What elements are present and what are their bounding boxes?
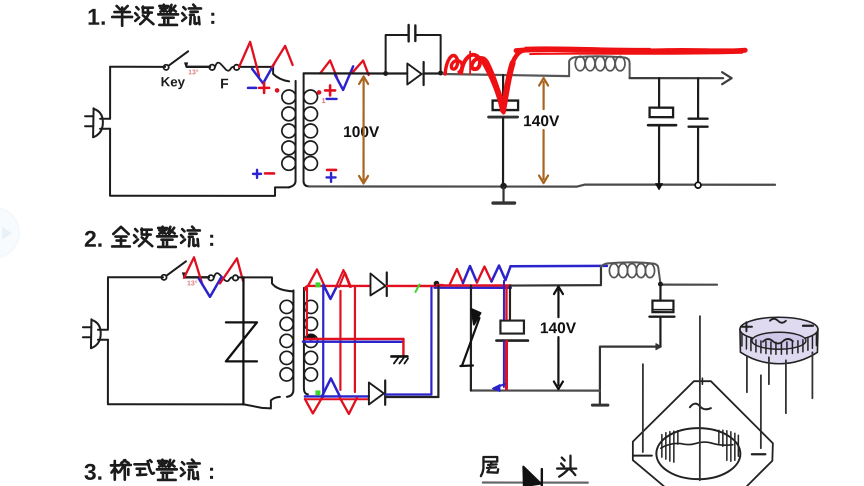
green slash mark xyxy=(415,284,419,292)
svg-text:3.: 3. xyxy=(84,459,103,485)
title 3: 3.bridge rectification xyxy=(84,459,215,485)
hole inner arc xyxy=(661,442,733,448)
junction dot at C1 ground xyxy=(500,183,507,190)
tail label (wei) xyxy=(481,457,498,476)
overlay red verticals xyxy=(306,288,308,339)
primary loop left vertical xyxy=(242,277,244,404)
hole hatches left xyxy=(662,431,678,463)
diode tail-head: baseline wire xyxy=(483,481,588,483)
bridge package diamond outline xyxy=(633,381,773,486)
junction dot C3 (open) xyxy=(695,182,701,188)
wire: D2 to node C (red) xyxy=(387,285,437,287)
red scribble: dip into capacitor xyxy=(483,60,513,111)
wire: c1 left loop with plug stubs xyxy=(110,67,289,196)
wire: diode to choke (gray) xyxy=(443,74,569,76)
green terminal dot top xyxy=(315,282,320,287)
wire: c2 left loop with plug stubs xyxy=(108,277,280,408)
black top wire to choke riser xyxy=(511,267,601,286)
overlay blue vertical (induced voltage) xyxy=(322,285,324,397)
disc leads xyxy=(746,356,748,392)
140V brown measuring arrow c1 xyxy=(542,82,544,109)
choke L2 loops xyxy=(601,263,608,266)
wire: D3 to risers (blue+black) xyxy=(386,393,431,395)
rectifier disc top face xyxy=(740,317,818,341)
transformer T1 primary winding xyxy=(289,81,296,188)
secondary polarity top: dot + - xyxy=(317,90,322,95)
capacitor C1 bypass branch wires xyxy=(386,35,441,74)
capacitor C1 plates xyxy=(407,25,409,41)
wire: switch to fuse xyxy=(187,66,210,68)
junction dot choke2 xyxy=(658,282,663,287)
svg-text::: : xyxy=(208,459,215,484)
red scribble: rectified humps xyxy=(445,56,462,75)
AC plug P2 xyxy=(91,319,101,348)
100V brown measuring arrow xyxy=(362,80,364,180)
blue arrow at bottom of pair xyxy=(494,384,505,388)
transformer T2 primary winding xyxy=(287,290,294,397)
head label (tou) xyxy=(557,456,576,477)
secondary top wire (red) to diode D2 xyxy=(305,286,370,290)
filter cap C4 (reservoir, electrolytic) xyxy=(502,75,504,100)
svg-text::: : xyxy=(209,4,216,29)
disc markings + ~ - xyxy=(741,326,752,328)
polarity marks primary top: - + dot xyxy=(248,87,256,90)
smoothed DC blue line xyxy=(510,265,607,268)
centre tap down lead red xyxy=(402,339,404,355)
secondary bottom wire blue/red to D3 xyxy=(305,395,369,397)
junction dot C2 xyxy=(656,184,663,190)
svg-text:Key: Key xyxy=(161,74,186,89)
title 2: 2.full-wave rectification xyxy=(84,226,215,252)
secondary polarity bottom: - + xyxy=(327,169,336,172)
capacitor C2 (electrolytic) lead xyxy=(658,78,660,107)
svg-text:100V: 100V xyxy=(343,124,380,141)
wire: choke to output arrow xyxy=(630,77,723,79)
fuse F2 xyxy=(208,275,213,280)
svg-text:2.: 2. xyxy=(84,226,103,252)
output arrowhead xyxy=(722,72,732,84)
wire: c2 top to switch xyxy=(108,276,163,278)
ground G2 xyxy=(592,404,608,407)
plus mark left xyxy=(633,455,652,457)
red top wire segment after node C xyxy=(437,284,511,287)
green terminal dot bottom xyxy=(315,390,320,395)
Z element on primary branch xyxy=(226,322,257,361)
player overlay button xyxy=(0,208,19,258)
centre lead wire xyxy=(699,316,701,480)
140V black measuring arrow c2 xyxy=(557,290,559,317)
wire: c1 top from plug to switch xyxy=(110,66,165,68)
riser pair up to node C xyxy=(430,287,432,394)
tilde on diamond xyxy=(690,404,711,410)
diode tail-head: filled triangle xyxy=(523,467,541,486)
centre tap wires red+blue xyxy=(305,338,403,340)
capacitor C2 body xyxy=(650,108,674,118)
red scribble: rise to smoothed DC xyxy=(510,51,523,71)
minus mark right xyxy=(752,453,766,455)
AC plug P1 xyxy=(93,108,103,137)
fuse F xyxy=(209,65,214,70)
diode D3 (bottom) xyxy=(369,382,384,404)
ground G1 xyxy=(502,186,504,202)
hole ellipse xyxy=(656,428,740,479)
switch Key2 xyxy=(161,275,166,280)
diode D1 xyxy=(386,72,408,74)
disc rim hatches xyxy=(742,334,817,355)
svg-text:140V: 140V xyxy=(540,320,577,337)
waveform red/blue over fuse2 xyxy=(184,257,203,285)
capacitor C3 xyxy=(697,78,699,117)
diode D2 (top) xyxy=(370,273,385,295)
choke L1 input riser xyxy=(569,57,575,76)
node B junction dot xyxy=(438,71,443,76)
waveform red/blue over fuse area xyxy=(239,42,259,76)
svg-text:13°: 13° xyxy=(187,279,198,287)
svg-text:1: 1 xyxy=(322,98,326,105)
waveform below bottom wire: red V, blue peak, red V xyxy=(305,398,322,414)
blue under-wire segment from riser xyxy=(434,287,511,289)
wire: fuse2 right + down to transformer T2 xyxy=(238,277,294,291)
diamond top tick xyxy=(701,378,703,384)
ground G3 xyxy=(391,355,407,358)
overlay blue/red pair along C6 xyxy=(503,281,505,319)
waveform over secondary top: red peak, blue V, red double peak xyxy=(308,269,325,286)
wire: C5 bottom left and down to ground xyxy=(600,347,661,405)
svg-text:F: F xyxy=(220,75,229,91)
wire: fuse to transformer T1 xyxy=(239,67,289,82)
capacitor C5 (electrolytic) xyxy=(659,285,661,301)
rectifier disc inner recess xyxy=(752,332,806,349)
capacitor C6 output cap xyxy=(509,286,511,321)
full-wave zigzag red/blue xyxy=(437,269,463,285)
choke L1 loops xyxy=(575,56,585,70)
transformer T1 secondary winding xyxy=(304,74,310,186)
red scribble: smoothed DC line xyxy=(516,50,745,52)
svg-text::: : xyxy=(208,226,215,251)
title 1: 1.half-wave rectification xyxy=(87,4,216,30)
wire: secondary top to diode node xyxy=(304,72,385,74)
node C junction dot xyxy=(434,281,440,287)
switch Key xyxy=(164,65,169,70)
transformer T2 secondary winding xyxy=(304,288,308,395)
wire: switch2 to fuse2 xyxy=(185,276,209,278)
node A junction dot xyxy=(383,71,388,76)
svg-text:1.: 1. xyxy=(87,4,106,30)
svg-text:140V: 140V xyxy=(523,113,560,130)
load adjustable arrow scribble xyxy=(471,309,480,325)
centre tap dot xyxy=(306,334,315,340)
waveform red/blue over secondary xyxy=(320,60,337,78)
diode tail-head: cathode bar xyxy=(541,469,543,486)
bottom rail c2 output xyxy=(471,389,600,391)
hole hatches right xyxy=(719,430,739,461)
polarity marks primary bottom: + - xyxy=(253,173,261,175)
bottom rail c1 xyxy=(309,184,775,186)
svg-text:13°: 13° xyxy=(188,68,199,76)
rectifier disc (3D) body side xyxy=(740,329,818,364)
load branch vertical xyxy=(470,286,472,391)
wire: choke2 output xyxy=(660,284,717,286)
left lead wire xyxy=(642,364,644,452)
